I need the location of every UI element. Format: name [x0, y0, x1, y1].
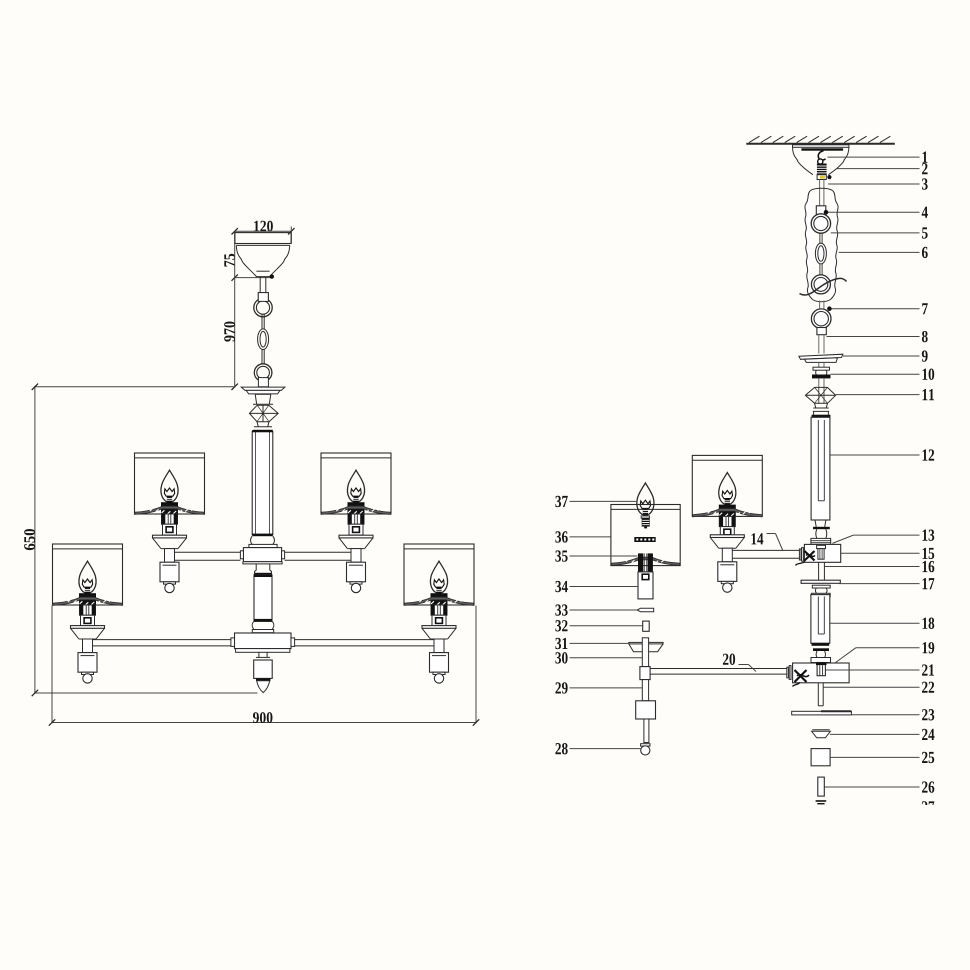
- lower hub (part 19): [793, 663, 850, 683]
- spool above column 18: [811, 585, 830, 597]
- chain wire and oval link: [258, 314, 269, 364]
- chain ring lower: [811, 275, 830, 294]
- rod through cover: [820, 191, 824, 206]
- label 13 leader: [832, 529, 934, 543]
- label 25 leader: [830, 752, 934, 763]
- label 6 leader: [839, 247, 928, 258]
- dimension 970 (hanging height): [224, 231, 238, 390]
- label 21 leader: [826, 664, 934, 675]
- square block (part 25): [811, 749, 830, 766]
- canopy screw dot: [270, 275, 273, 278]
- chain ring top: [254, 293, 272, 317]
- hanging hook (part 1): [818, 151, 826, 164]
- label 16 leader: [825, 561, 935, 572]
- dimension 120 (canopy width): [232, 221, 295, 244]
- screw in hub (part 21): [816, 663, 827, 676]
- label 22 leader: [823, 682, 934, 693]
- socket with shade holder saucer (part 35): [612, 553, 680, 572]
- ring above stem (part 7/8): [811, 309, 831, 329]
- label 32 leader: [555, 620, 642, 631]
- label 10 leader: [831, 369, 935, 380]
- lower hub: [231, 633, 295, 652]
- label 37 leader: [555, 496, 636, 507]
- candle bulb (part 37): [637, 483, 654, 528]
- rod below tee (part 29): [642, 680, 648, 701]
- upper hub (part 13): [804, 544, 840, 562]
- hub screws (part 15): [796, 551, 816, 566]
- small cup (part 24): [812, 730, 831, 738]
- spool (part 10): [812, 362, 831, 378]
- upper spool: [253, 394, 273, 404]
- small bar (part 26): [818, 777, 825, 796]
- top collar: [258, 378, 268, 387]
- label 28 leader: [555, 743, 640, 754]
- label 29 leader: [555, 682, 642, 693]
- thin disc (part 17): [801, 580, 840, 583]
- arm connector bars at hub 13: [799, 548, 803, 562]
- label 9 leader: [843, 350, 928, 361]
- arm (part 20): [650, 669, 787, 675]
- lamp lower-right: bobeche, stem, switch block, ball: [422, 626, 456, 684]
- lower column (part 18): [811, 595, 830, 646]
- lamp lower-left: shade, candle bulb, socket: [53, 544, 123, 626]
- rod below hub 19 (part 22): [818, 683, 823, 706]
- chain ring bottom: [254, 364, 272, 382]
- main column (upper): [249, 430, 277, 548]
- label 26 leader: [825, 781, 935, 792]
- threaded nipple with nuts (part 2 area): [816, 164, 828, 175]
- label 12 leader: [830, 449, 934, 460]
- chain ring (part 5): [811, 214, 830, 233]
- lamp upper-right: bobeche, stem, switch block, ball: [339, 535, 373, 593]
- upper rod: [820, 180, 824, 192]
- top plate: [241, 387, 285, 394]
- small bushing (part 32): [643, 621, 650, 631]
- spool below column 12: [811, 520, 831, 544]
- label 19 leader: [835, 642, 934, 663]
- label 5 leader: [831, 227, 928, 238]
- canopy (exploded view): [793, 145, 849, 175]
- dimension 75 (canopy height): [224, 254, 271, 281]
- exploded-view lamp (upper, assembled): shade and candle: [692, 455, 762, 537]
- lamp lower-left: bobeche, stem, switch block, ball: [71, 626, 105, 684]
- ceiling line with hatching: [746, 136, 895, 144]
- arm (part 14): [732, 550, 799, 558]
- label 27 (clipped at drawing edge): [922, 801, 934, 812]
- wide thin disc (part 23): [792, 711, 852, 715]
- label 8 leader: [827, 331, 928, 342]
- spool above hub 19: [811, 648, 831, 662]
- rod to saucer: [819, 335, 824, 354]
- label 17 leader: [839, 578, 934, 589]
- rod below hub 13 (part 16): [819, 562, 825, 580]
- exploded-view lamp (upper): bobeche, stem, block, ball: [710, 535, 744, 593]
- lamp upper-left: bobeche, stem, switch block, ball: [153, 535, 187, 593]
- dimension 650 (body height): [24, 384, 257, 697]
- label 30 leader: [555, 652, 642, 663]
- diamond ornament: [249, 405, 278, 422]
- upper hub: [240, 548, 284, 564]
- label 36 leader: [555, 531, 611, 542]
- label 31 leader: [555, 638, 628, 649]
- ceiling canopy: [235, 233, 291, 277]
- threaded rod (part 30): [642, 638, 648, 667]
- lock collar with washer (part 3 area): [817, 175, 831, 180]
- label 20 leader: [723, 654, 756, 672]
- candle sleeve (part 34): [638, 572, 653, 599]
- label 11 leader: [836, 389, 934, 400]
- cup below diamond: [253, 422, 272, 431]
- upper right arm: [285, 552, 352, 560]
- lower left arm: [92, 640, 231, 646]
- pin (part 33): [637, 608, 654, 612]
- label 1 leader: [828, 152, 928, 163]
- lamp lower-right: shade, candle bulb, socket: [404, 544, 474, 626]
- cup below diamond: [812, 403, 831, 417]
- rod to diamond: [819, 378, 824, 387]
- upper column (part 12): [811, 417, 830, 520]
- glass shade (part 36): [611, 505, 680, 566]
- power wire squiggle: [800, 278, 847, 295]
- label 24 leader: [830, 729, 935, 740]
- arm tee block: [640, 667, 650, 680]
- spool below upper hub: [254, 564, 272, 575]
- rod (part 7): [820, 301, 824, 310]
- lamp upper-left: shade, candle bulb, socket: [135, 453, 205, 535]
- diamond ornament (part 11): [805, 387, 835, 403]
- label 18 leader: [830, 618, 934, 629]
- middle column: [252, 575, 274, 633]
- ball finial (part 28): [641, 744, 650, 755]
- label 3 leader: [828, 178, 928, 189]
- decorative wavy chain cover (part 6): [805, 188, 838, 302]
- suspension stem: [258, 277, 268, 302]
- switch block (lamp B): [636, 701, 656, 719]
- finial spool: [256, 652, 271, 660]
- label 33 leader: [555, 604, 637, 615]
- upper left arm: [175, 552, 241, 560]
- dimension 900 (body width): [49, 606, 479, 726]
- finial block: [254, 660, 273, 681]
- hub 19 screws: [793, 670, 810, 687]
- label 23 leader: [852, 709, 935, 720]
- label 34 leader: [555, 581, 638, 592]
- label 2 leader: [836, 163, 928, 174]
- bobeche (part 31): [629, 642, 663, 651]
- knurled holder ring (inside shade): [634, 537, 655, 542]
- lower rod (lamp B): [644, 719, 649, 743]
- bottom cap (part 27): [816, 800, 827, 804]
- finial tip: [257, 681, 270, 693]
- label 7 leader: [828, 303, 928, 314]
- label 14 leader: [751, 533, 783, 551]
- collar (part 8): [817, 328, 826, 335]
- lower right arm: [295, 640, 435, 646]
- saucer plate (part 9): [799, 354, 843, 362]
- label 15 leader: [841, 548, 934, 559]
- chain oval link: [815, 233, 826, 276]
- lamp upper-right: shade, candle bulb, socket: [321, 453, 391, 535]
- label 4 leader: [824, 207, 928, 218]
- label 35 leader: [555, 550, 637, 561]
- square link (part 4): [816, 206, 826, 216]
- arm connector bars at hub 19: [787, 666, 791, 680]
